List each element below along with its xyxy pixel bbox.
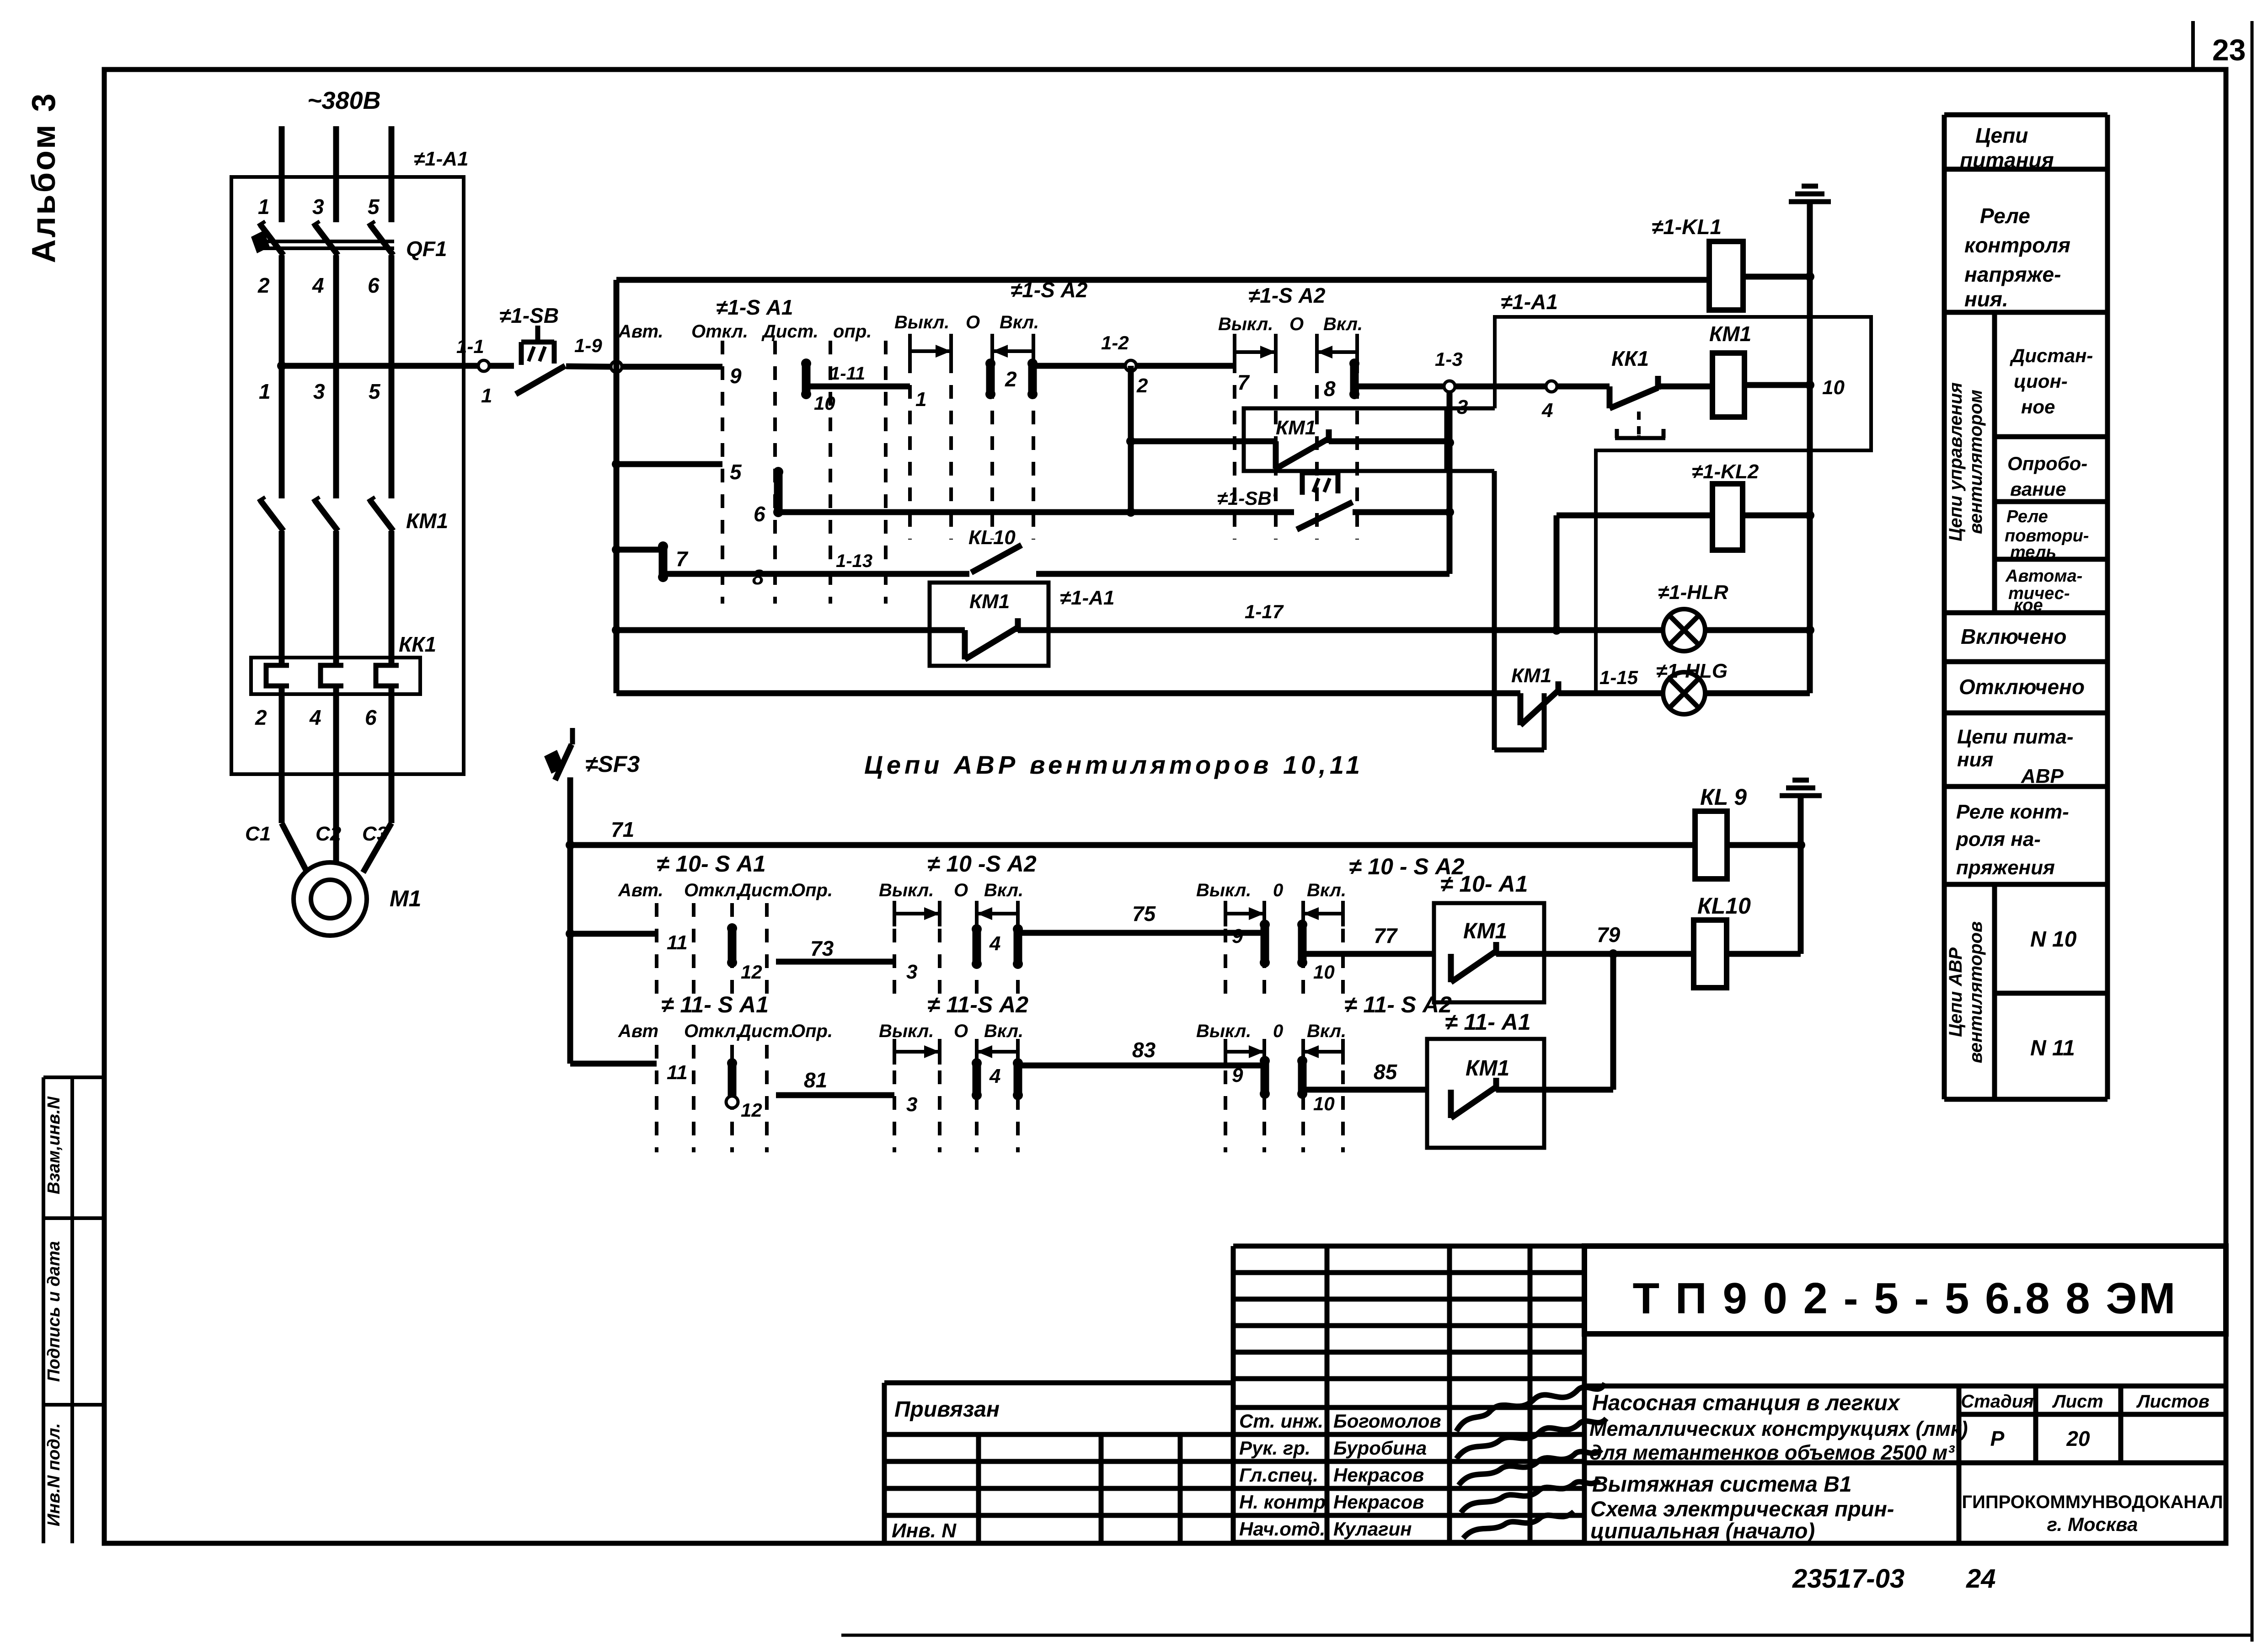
- svg-text:4: 4: [989, 932, 1000, 955]
- svg-text:Опр.: Опр.: [791, 880, 833, 900]
- svg-text:Выкл.: Выкл.: [879, 880, 934, 900]
- svg-text:≠1-KL2: ≠1-KL2: [1692, 460, 1759, 483]
- svg-text:Вкл.: Вкл.: [1000, 312, 1039, 332]
- svg-text:12: 12: [741, 961, 762, 983]
- svg-text:С2: С2: [316, 823, 342, 845]
- svg-text:Буробина: Буробина: [1333, 1437, 1427, 1459]
- svg-text:3: 3: [312, 195, 324, 219]
- svg-text:Откл.: Откл.: [684, 880, 741, 900]
- svg-text:цион-: цион-: [2014, 370, 2068, 392]
- svg-text:9: 9: [1232, 925, 1243, 947]
- svg-text:0: 0: [1273, 880, 1283, 900]
- svg-text:ное: ное: [2021, 396, 2055, 417]
- svg-text:Вкл.: Вкл.: [1307, 1021, 1346, 1041]
- svg-text:≠1-S А2: ≠1-S А2: [1011, 278, 1088, 302]
- svg-text:Авт.: Авт.: [618, 880, 663, 900]
- svg-text:≠ 11- S А2: ≠ 11- S А2: [1344, 992, 1452, 1017]
- svg-text:Отключено: Отключено: [1959, 675, 2085, 699]
- svg-text:Нач.отд.: Нач.отд.: [1239, 1518, 1325, 1540]
- svg-text:79: 79: [1597, 923, 1621, 947]
- svg-text:4: 4: [309, 706, 321, 729]
- svg-text:N 11: N 11: [2030, 1036, 2075, 1060]
- svg-text:Цепи АВР: Цепи АВР: [1946, 947, 1966, 1037]
- svg-text:КМ1: КМ1: [1466, 1056, 1509, 1081]
- svg-text:≠1-SB: ≠1-SB: [499, 304, 559, 327]
- svg-text:Опр.: Опр.: [791, 1021, 833, 1041]
- svg-text:КL10: КL10: [1697, 893, 1751, 919]
- svg-text:≠ 11-S А2: ≠ 11-S А2: [927, 992, 1028, 1017]
- svg-text:Листов: Листов: [2136, 1391, 2209, 1412]
- svg-text:Металлических конструкциях (л: Металлических конструкциях (лмк): [1589, 1417, 1968, 1440]
- svg-text:КМ1: КМ1: [1276, 417, 1316, 439]
- svg-text:вентиляторов: вентиляторов: [1966, 921, 1986, 1064]
- svg-text:83: 83: [1132, 1038, 1156, 1062]
- svg-text:КМ1: КМ1: [969, 590, 1010, 613]
- svg-text:вентилятором: вентилятором: [1966, 390, 1986, 534]
- svg-text:Дист.: Дист.: [737, 880, 794, 900]
- svg-text:КМ1: КМ1: [1709, 322, 1751, 346]
- svg-text:3: 3: [906, 1093, 917, 1116]
- svg-text:12: 12: [741, 1099, 762, 1121]
- svg-text:Гл.спец.: Гл.спец.: [1239, 1464, 1318, 1486]
- svg-text:N 10: N 10: [2030, 927, 2077, 952]
- svg-text:ния.: ния.: [1964, 287, 2008, 311]
- svg-text:9: 9: [1232, 1064, 1243, 1086]
- svg-text:~380В: ~380В: [307, 87, 381, 114]
- svg-text:для метантенков объемов 2500: для метантенков объемов 2500 м³: [1589, 1441, 1955, 1464]
- svg-text:23517-03: 23517-03: [1792, 1564, 1904, 1594]
- svg-text:Т П 9 0 2 - 5 - 5 6.8 8 ЭМ: Т П 9 0 2 - 5 - 5 6.8 8 ЭМ: [1632, 1274, 2177, 1323]
- svg-text:тель: тель: [2010, 543, 2056, 562]
- svg-text:вание: вание: [2010, 478, 2066, 500]
- svg-text:ния: ния: [1957, 749, 1993, 771]
- svg-text:73: 73: [810, 936, 834, 960]
- svg-text:2: 2: [257, 273, 270, 297]
- svg-text:≠1-S А1: ≠1-S А1: [716, 295, 793, 319]
- svg-text:8: 8: [1324, 377, 1336, 401]
- svg-text:Реле конт-: Реле конт-: [1956, 801, 2069, 823]
- svg-text:≠ 11- А1: ≠ 11- А1: [1445, 1009, 1531, 1035]
- svg-text:9: 9: [730, 364, 742, 388]
- svg-text:Реле: Реле: [2006, 507, 2048, 526]
- svg-text:4: 4: [312, 273, 324, 297]
- svg-text:АВР: АВР: [2021, 765, 2064, 787]
- svg-text:О: О: [954, 880, 968, 900]
- svg-text:Дистан-: Дистан-: [2010, 345, 2093, 366]
- svg-text:75: 75: [1132, 902, 1156, 926]
- svg-text:Вкл.: Вкл.: [984, 1021, 1023, 1041]
- svg-text:О: О: [966, 312, 980, 332]
- svg-text:КМ1: КМ1: [1463, 919, 1507, 943]
- svg-text:7: 7: [676, 547, 689, 571]
- svg-text:ципиальная (начало): ципиальная (начало): [1590, 1519, 1815, 1543]
- svg-text:≠1-А1: ≠1-А1: [1060, 587, 1115, 609]
- svg-text:≠1-HLR: ≠1-HLR: [1658, 581, 1728, 604]
- svg-text:контроля: контроля: [1964, 233, 2070, 257]
- svg-text:опр.: опр.: [833, 321, 872, 342]
- svg-text:10: 10: [814, 392, 835, 414]
- svg-text:≠ 10- S А1: ≠ 10- S А1: [657, 851, 766, 877]
- svg-text:2: 2: [255, 706, 267, 729]
- svg-text:2: 2: [1136, 375, 1148, 397]
- svg-text:23: 23: [2212, 33, 2246, 67]
- svg-text:Кулагин: Кулагин: [1333, 1518, 1412, 1540]
- svg-text:6: 6: [754, 502, 765, 526]
- svg-text:Включено: Включено: [1961, 625, 2066, 648]
- svg-text:1-15: 1-15: [1599, 667, 1638, 688]
- svg-text:Цепи АВР вентиляторов 10,11: Цепи АВР вентиляторов 10,11: [864, 750, 1364, 779]
- svg-text:КL10: КL10: [968, 526, 1016, 549]
- svg-text:≠ 11- S А1: ≠ 11- S А1: [661, 992, 769, 1017]
- svg-text:≠1-А1: ≠1-А1: [414, 148, 469, 170]
- svg-text:1: 1: [915, 388, 926, 411]
- svg-text:2: 2: [1005, 367, 1017, 391]
- svg-text:Выкл.: Выкл.: [1218, 314, 1273, 334]
- svg-text:Дист.: Дист.: [761, 321, 818, 342]
- svg-text:1: 1: [259, 380, 271, 403]
- svg-text:питания: питания: [1960, 148, 2054, 172]
- svg-text:Некрасов: Некрасов: [1333, 1464, 1424, 1486]
- svg-text:≠ 10- А1: ≠ 10- А1: [1440, 871, 1528, 897]
- svg-text:О: О: [1289, 314, 1304, 334]
- svg-text:10: 10: [1313, 1093, 1335, 1114]
- svg-text:кое: кое: [2014, 596, 2043, 615]
- svg-text:10: 10: [1822, 376, 1845, 399]
- svg-text:Вкл.: Вкл.: [984, 880, 1023, 900]
- svg-text:Инв. N: Инв. N: [892, 1520, 957, 1542]
- svg-text:1-9: 1-9: [574, 335, 602, 356]
- svg-text:Цепи: Цепи: [1975, 123, 2028, 147]
- svg-text:Н. контр.: Н. контр.: [1239, 1491, 1331, 1513]
- svg-text:3: 3: [906, 961, 917, 983]
- svg-text:Вкл.: Вкл.: [1323, 314, 1363, 334]
- svg-text:Инв.N подл.: Инв.N подл.: [44, 1423, 64, 1526]
- svg-text:Цепи управления: Цепи управления: [1946, 382, 1966, 541]
- svg-text:11: 11: [667, 1061, 688, 1084]
- svg-text:Выкл.: Выкл.: [1196, 1021, 1251, 1041]
- svg-text:Выкл.: Выкл.: [1196, 880, 1251, 900]
- svg-text:Реле: Реле: [1980, 204, 2030, 228]
- svg-text:пряжения: пряжения: [1956, 856, 2055, 879]
- svg-text:Рук. гр.: Рук. гр.: [1239, 1437, 1311, 1459]
- svg-text:85: 85: [1374, 1060, 1398, 1084]
- svg-text:Цепи пита-: Цепи пита-: [1957, 726, 2074, 748]
- svg-text:4: 4: [989, 1065, 1000, 1087]
- svg-text:Богомолов: Богомолов: [1333, 1410, 1441, 1432]
- svg-text:Альбом 3: Альбом 3: [26, 92, 62, 263]
- svg-text:Авт.: Авт.: [618, 321, 663, 342]
- svg-text:Р: Р: [1990, 1427, 2005, 1450]
- svg-text:1-13: 1-13: [836, 551, 872, 571]
- svg-text:5: 5: [368, 195, 380, 219]
- svg-text:напряже-: напряже-: [1964, 262, 2061, 286]
- svg-text:Схема электрическая прин-: Схема электрическая прин-: [1590, 1497, 1894, 1521]
- svg-text:ГИПРОКОММУНВОДОКАНАЛ: ГИПРОКОММУНВОДОКАНАЛ: [1962, 1492, 2223, 1512]
- svg-text:Вкл.: Вкл.: [1307, 880, 1346, 900]
- svg-text:7: 7: [1237, 370, 1250, 394]
- svg-text:0: 0: [1273, 1021, 1283, 1041]
- svg-text:Стадия: Стадия: [1961, 1391, 2033, 1412]
- svg-text:1-17: 1-17: [1245, 601, 1284, 622]
- svg-text:КК1: КК1: [399, 632, 436, 656]
- svg-text:8: 8: [752, 565, 764, 589]
- svg-text:5: 5: [730, 460, 742, 484]
- svg-text:С1: С1: [245, 823, 271, 845]
- svg-text:≠1-HLG: ≠1-HLG: [1656, 660, 1728, 682]
- svg-text:≠1-KL1: ≠1-KL1: [1652, 215, 1722, 239]
- svg-text:3: 3: [313, 380, 325, 403]
- svg-text:≠ 10 -S А2: ≠ 10 -S А2: [927, 851, 1037, 877]
- svg-text:1: 1: [481, 385, 492, 407]
- svg-text:20: 20: [2066, 1427, 2090, 1450]
- svg-text:КМ1: КМ1: [1511, 664, 1551, 687]
- svg-text:1-1: 1-1: [456, 336, 484, 357]
- svg-text:КМ1: КМ1: [406, 509, 448, 533]
- svg-text:≠1-А1: ≠1-А1: [1501, 290, 1558, 314]
- svg-text:1-3: 1-3: [1435, 348, 1463, 370]
- svg-text:81: 81: [804, 1068, 827, 1092]
- svg-text:10: 10: [1313, 961, 1335, 983]
- svg-text:≠SF3: ≠SF3: [585, 751, 640, 777]
- svg-text:71: 71: [611, 818, 634, 841]
- svg-text:Лист: Лист: [2052, 1391, 2103, 1412]
- svg-text:Выкл.: Выкл.: [879, 1021, 934, 1041]
- svg-text:М1: М1: [390, 886, 421, 911]
- svg-text:Опробо-: Опробо-: [2007, 453, 2087, 474]
- svg-text:О: О: [954, 1021, 968, 1041]
- svg-text:Насосная станция в легких: Насосная станция в легких: [1592, 1391, 1901, 1415]
- svg-text:QF1: QF1: [406, 237, 447, 261]
- svg-text:роля на-: роля на-: [1956, 828, 2041, 851]
- svg-text:Автома-: Автома-: [2005, 567, 2082, 586]
- svg-text:КК1: КК1: [1611, 347, 1649, 370]
- svg-text:24: 24: [1966, 1564, 1996, 1594]
- svg-text:1-2: 1-2: [1101, 332, 1129, 353]
- svg-text:Взам,инв.N: Взам,инв.N: [44, 1096, 64, 1194]
- svg-text:11: 11: [667, 931, 688, 954]
- svg-text:≠1-SB': ≠1-SB': [1217, 487, 1277, 509]
- svg-text:Дист.: Дист.: [737, 1021, 794, 1041]
- svg-text:Откл.: Откл.: [684, 1021, 741, 1041]
- svg-text:6: 6: [365, 706, 377, 729]
- svg-text:С3: С3: [362, 823, 388, 845]
- svg-text:Подпись и дата: Подпись и дата: [44, 1241, 64, 1382]
- svg-text:г. Москва: г. Москва: [2047, 1514, 2138, 1535]
- svg-text:Ст. инж.: Ст. инж.: [1239, 1410, 1323, 1432]
- svg-text:Откл.: Откл.: [691, 321, 748, 342]
- svg-text:Авт: Авт: [618, 1021, 658, 1041]
- svg-text:6: 6: [368, 273, 380, 297]
- svg-text:4: 4: [1541, 399, 1553, 422]
- svg-text:Некрасов: Некрасов: [1333, 1491, 1424, 1513]
- svg-text:1: 1: [258, 195, 270, 219]
- svg-text:1-11: 1-11: [830, 364, 865, 384]
- svg-text:Привязан: Привязан: [894, 1397, 1000, 1422]
- svg-text:77: 77: [1374, 924, 1398, 947]
- svg-text:5: 5: [369, 380, 381, 403]
- svg-text:Выкл.: Выкл.: [894, 312, 949, 332]
- svg-text:Вытяжная система В1: Вытяжная система В1: [1592, 1472, 1852, 1497]
- svg-text:≠1-S А2: ≠1-S А2: [1248, 284, 1326, 307]
- svg-text:КL 9: КL 9: [1700, 784, 1747, 810]
